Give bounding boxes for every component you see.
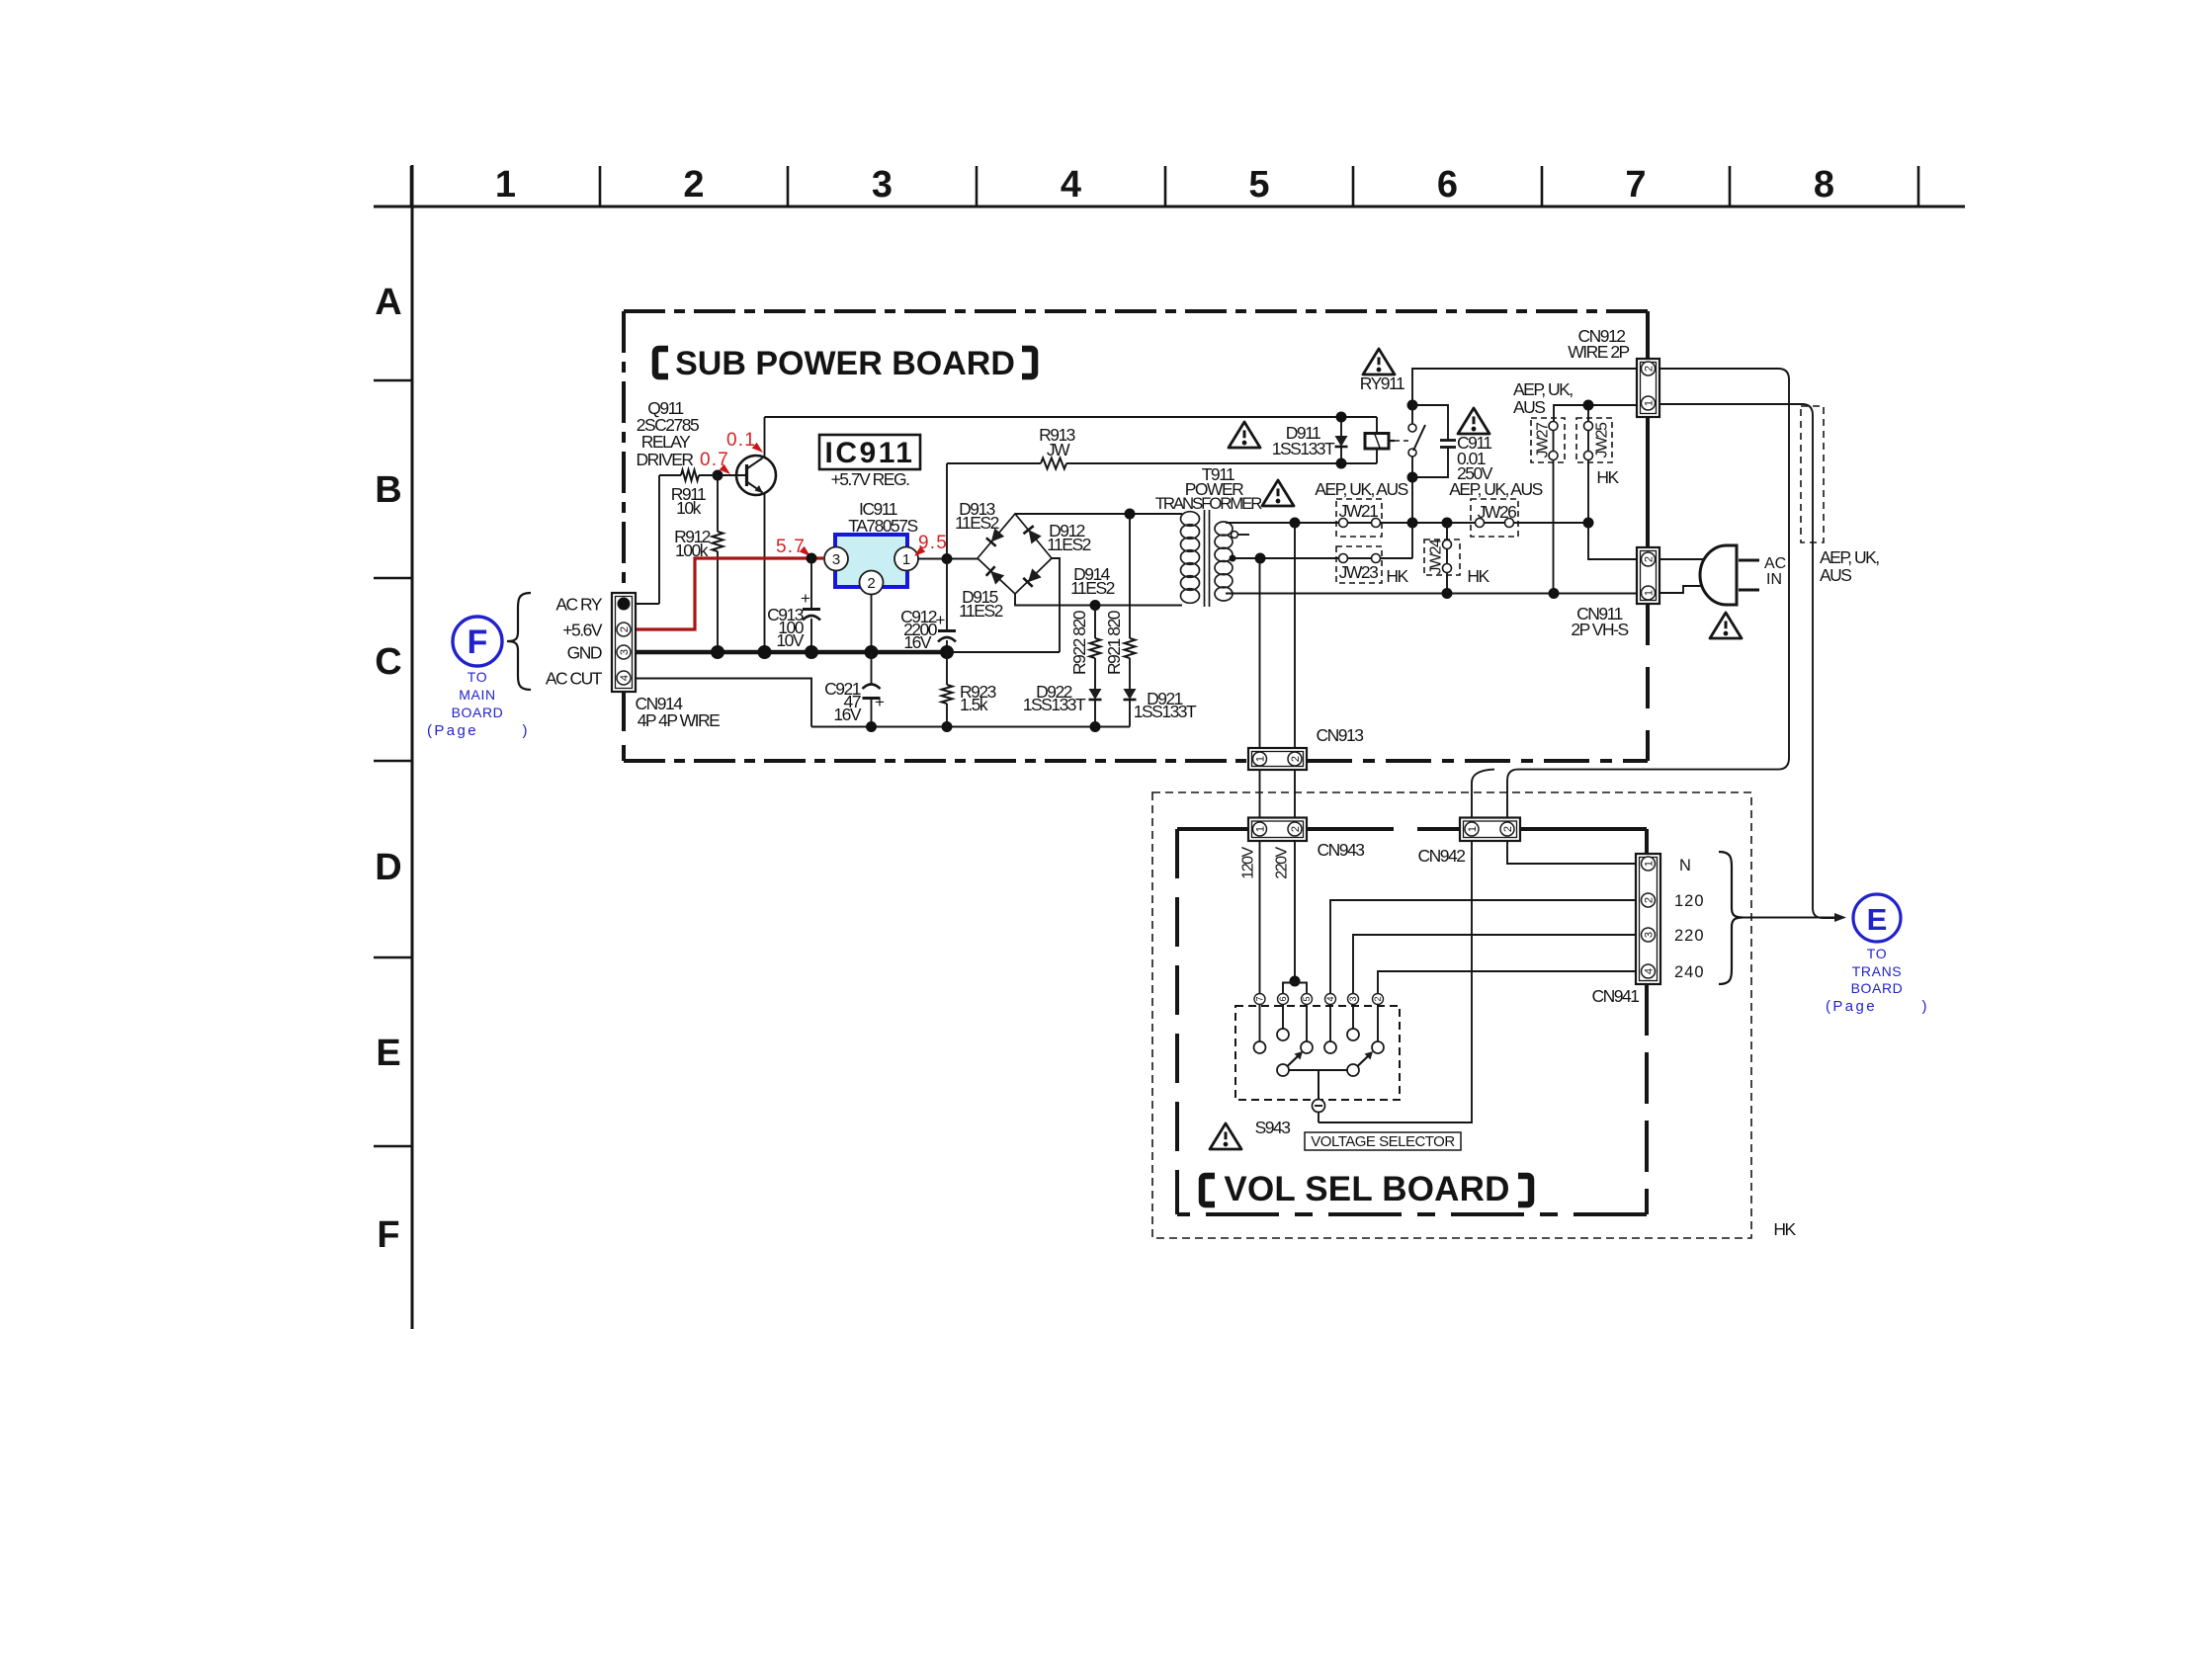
border ruler left line: [411, 165, 414, 1329]
wire: CN942 pin1 down to selector common: [1319, 841, 1472, 1122]
brace for CN941 voltages: [1719, 852, 1743, 984]
wire: R911 left lead down to CN914 pin1 wire: [658, 475, 660, 604]
board border: VOL SEL BOARD right edge upper: [1645, 829, 1649, 854]
wire: secondary tap rail y=565: [1233, 557, 1412, 559]
svg-text:TRANS: TRANS: [1852, 963, 1902, 979]
transformer T911 core: [1204, 510, 1206, 607]
pin 1 CN912: [1642, 396, 1656, 410]
svg-text:CN913: CN913: [1317, 725, 1364, 745]
svg-text:JW25: JW25: [1594, 422, 1611, 458]
svg-text:6: 6: [1278, 996, 1288, 1001]
wire: GND bus thin continuation: [947, 651, 1060, 653]
pin 2 IC911: [860, 571, 884, 595]
svg-text:11ES2: 11ES2: [959, 601, 1003, 621]
svg-text:): ): [1922, 998, 1927, 1015]
connector CN912: [1637, 359, 1659, 417]
svg-text:AEP, UK,: AEP, UK,: [1820, 547, 1879, 567]
node: dot CN913 pin1 takeoff: [1255, 553, 1266, 564]
wire: C911 bottom branch: [1412, 448, 1448, 477]
diode D921: [1124, 689, 1137, 700]
node: dot JW27 bottom: [1549, 588, 1560, 599]
wire: brace to E flag: [1743, 917, 1835, 919]
node: dot C921 bottom: [866, 721, 877, 732]
node: GND bus junction dot: [711, 645, 724, 659]
wire: CN941 pin4 to S943 pin2: [1378, 971, 1636, 994]
wire: S943 pin2 stub: [1377, 1005, 1379, 1042]
relay switch contacts: [1408, 424, 1416, 432]
svg-text:+5.6V: +5.6V: [562, 621, 603, 640]
svg-text:2: 2: [619, 626, 631, 632]
relay dashed actuator link: [1389, 440, 1395, 442]
wire: CN912 pin1 long run to E flag: [1659, 404, 1835, 918]
wire: CN941 pin2 to S943 pin4: [1330, 900, 1636, 994]
node: dot JW24 bottom: [1442, 588, 1453, 599]
svg-text:F: F: [377, 1214, 399, 1256]
contact S943 pin7: [1254, 1041, 1266, 1053]
capacitor C921: [863, 685, 881, 690]
svg-text:GND: GND: [567, 643, 602, 663]
wire: C912 top lead: [946, 559, 948, 631]
wiper right S943: [1347, 1064, 1359, 1076]
node: dot JW25 bottom: [1583, 518, 1594, 529]
board border: VOL SEL BOARD bottom edge dashed: [1177, 1212, 1647, 1216]
wire: CN913 pin1 to CN943 pin1: [1259, 770, 1261, 818]
svg-text:HK: HK: [1386, 566, 1408, 586]
wire: S943 pin3 stub: [1352, 1005, 1354, 1030]
diode bridge outline: [978, 514, 1052, 594]
connector CN943: [1248, 818, 1307, 842]
svg-text:1: 1: [1254, 756, 1266, 762]
svg-text:1: 1: [1254, 826, 1266, 832]
board title SUB POWER BOARD: [655, 349, 668, 376]
node: dot JW25 top: [1583, 400, 1594, 411]
node: dot D911 bottom: [1336, 458, 1347, 469]
svg-text:2: 2: [1643, 366, 1655, 372]
capacitor C911: [1440, 439, 1456, 442]
border ruler left tick: [374, 379, 412, 382]
resistor R911: [659, 474, 681, 476]
node: dot switch/C911 bottom: [1407, 472, 1418, 483]
relay switch blade: [1413, 425, 1425, 451]
svg-text:(Page: (Page: [1826, 998, 1877, 1015]
svg-text:7: 7: [1625, 164, 1646, 206]
wire: branch to pins 6 and 5: [1283, 983, 1307, 994]
border ruler top tick: [787, 166, 790, 207]
wire: CN911 pin1 to AC plug: [1659, 586, 1711, 593]
wire: secondary top rail y=529: [1226, 522, 1588, 524]
node: GND bus junction dot: [805, 645, 818, 659]
wire: Q911 base wire: [718, 474, 747, 476]
wire: CN943 pin2 down to junction: [1294, 841, 1296, 981]
IC U911 regulator body: [835, 535, 907, 587]
label R921 820 (rotated): [1104, 610, 1124, 675]
svg-text:HK: HK: [1467, 566, 1489, 586]
svg-text:BOARD: BOARD: [452, 705, 504, 720]
capacitor C912: [938, 629, 956, 632]
svg-text:120: 120: [1674, 892, 1705, 910]
board border: SUB POWER BOARD left edge lower: [622, 692, 626, 761]
diode D914: [1028, 568, 1042, 582]
svg-text:VOLTAGE SELECTOR: VOLTAGE SELECTOR: [1311, 1133, 1455, 1150]
wire: CN913 pin1 vertical from tap: [1259, 558, 1261, 748]
board border: SUB POWER BOARD right edge mid: [1646, 417, 1650, 547]
svg-text:7: 7: [1255, 996, 1265, 1001]
wire: C921 top lead: [871, 652, 873, 685]
svg-text:2: 2: [1373, 996, 1383, 1001]
svg-text:): ): [523, 722, 528, 739]
border ruler top tick: [1729, 166, 1732, 207]
svg-text:N: N: [1679, 857, 1691, 874]
wire: S943 pin5 stub: [1306, 1005, 1308, 1042]
svg-text:MAIN: MAIN: [459, 687, 495, 703]
svg-text:AUS: AUS: [1513, 397, 1545, 417]
jumper JW26: [1471, 499, 1518, 537]
jumper JW27: [1531, 418, 1565, 462]
svg-text:220V: 220V: [1274, 846, 1291, 878]
wire: wiper common bar: [1289, 1069, 1347, 1071]
svg-text:2: 2: [1502, 826, 1514, 832]
border ruler left tick: [374, 760, 412, 763]
contact S943 pin2: [1372, 1041, 1384, 1053]
svg-text:1.5k: 1.5k: [960, 695, 988, 714]
svg-text:S943: S943: [1255, 1118, 1291, 1137]
pin 2 S943 bubble: [1373, 994, 1384, 1005]
pin 3 S943 bubble: [1348, 994, 1359, 1005]
wire: GND bus thick: [636, 650, 947, 654]
border ruler left tick: [374, 577, 412, 580]
svg-text:1: 1: [1467, 826, 1479, 832]
wire: common drop: [1318, 1070, 1319, 1100]
node E flag circle: [1853, 894, 1901, 942]
node: junction dot at IC911 pin3 input: [807, 553, 817, 564]
board border: VOL SEL module outer dashed box: [1152, 792, 1751, 1238]
svg-text:RELAY: RELAY: [641, 432, 691, 452]
svg-text:3: 3: [872, 164, 893, 206]
svg-text:11ES2: 11ES2: [955, 513, 999, 533]
diode D912: [1029, 530, 1042, 543]
board title VOL SEL BOARD: [1202, 1176, 1215, 1205]
node: GND bus junction dot: [758, 645, 772, 659]
pin 6 S943 bubble: [1278, 994, 1289, 1005]
pin 4 CN941: [1642, 964, 1656, 978]
connector CN942: [1460, 818, 1520, 842]
wire: Q911 collector vertical: [764, 417, 766, 458]
svg-text:10k: 10k: [676, 498, 701, 518]
svg-text:3: 3: [619, 649, 631, 655]
wire: secondary bottom rail y=600.5: [1226, 593, 1637, 595]
diode D915: [990, 571, 1004, 585]
pin 2 CN943: [1288, 822, 1302, 836]
pin 1 CN943: [1253, 822, 1267, 836]
pin 2 CN913: [1288, 752, 1302, 766]
svg-text:JW27: JW27: [1535, 422, 1552, 458]
node: dot R923 bottom: [942, 721, 953, 732]
jumper JW23: [1336, 546, 1382, 583]
svg-text:B: B: [375, 469, 401, 511]
pin 1 CN914 (filled): [618, 598, 631, 611]
svg-text:1: 1: [495, 164, 516, 206]
contact S943 pin4: [1324, 1041, 1336, 1053]
node: base junction dot: [713, 470, 723, 481]
resistor R922: [1094, 606, 1096, 639]
svg-text:JW21: JW21: [1339, 501, 1379, 521]
border ruler top tick: [1352, 166, 1355, 207]
brace for CN914 signals: [507, 593, 531, 690]
wire: C913 top lead: [810, 558, 812, 610]
wire: C911 top branch: [1412, 405, 1448, 440]
svg-text:1SS133T: 1SS133T: [1272, 439, 1335, 458]
svg-text:3: 3: [1348, 996, 1358, 1001]
pin 1 CN913: [1253, 752, 1267, 766]
svg-text:AEP, UK,: AEP, UK,: [1513, 379, 1573, 399]
svg-text:C: C: [375, 641, 401, 683]
label 120V rotated: [1240, 846, 1257, 878]
border ruler top tick: [599, 166, 602, 207]
svg-text:+5.7V REG.: +5.7V REG.: [831, 469, 910, 489]
pin 2 CN912: [1642, 362, 1656, 375]
border ruler left tick: [374, 1145, 412, 1148]
transformer tap 2 lead: [1230, 555, 1236, 562]
pin 3 IC911: [824, 547, 848, 571]
wire: S943 pin7 stub: [1259, 1005, 1261, 1042]
svg-text:240: 240: [1674, 963, 1705, 981]
contact S943 pin3: [1347, 1029, 1359, 1040]
board border: SUB POWER BOARD top edge: [624, 309, 1648, 313]
node: junction dot above S943: [1290, 976, 1301, 987]
svg-text:220: 220: [1674, 927, 1705, 945]
wire: IC911 pin2 down to GND bus: [871, 595, 873, 653]
wire: common to CN942 pin1 net: [1318, 1113, 1319, 1123]
svg-text:HK: HK: [1596, 467, 1619, 487]
wire: CN912 pin2 wire to switch: [1412, 369, 1637, 405]
resistor R913: [1041, 458, 1066, 469]
border ruler top tick: [1541, 166, 1544, 207]
wire: switch bottom to y565 rail: [1411, 457, 1413, 558]
svg-text:8: 8: [1814, 164, 1834, 206]
svg-text:1: 1: [1643, 861, 1655, 867]
svg-text:5.7: 5.7: [776, 537, 806, 557]
svg-text:JW26: JW26: [1478, 502, 1517, 522]
pin 1 CN942: [1465, 822, 1479, 836]
svg-text:1SS133T: 1SS133T: [1134, 702, 1197, 721]
svg-text:E: E: [1867, 902, 1888, 937]
svg-text:CN943: CN943: [1318, 840, 1365, 860]
transformer T911 secondary winding: [1215, 522, 1233, 536]
warning triangle above RY911: [1363, 349, 1395, 374]
wire: CN941 pin3 to S943 pin3: [1353, 935, 1636, 994]
connector CN941: [1636, 854, 1660, 984]
svg-text:6: 6: [1437, 164, 1458, 206]
svg-text:TO: TO: [468, 669, 487, 685]
pin 4 S943 bubble: [1325, 994, 1336, 1005]
svg-text:1: 1: [1643, 590, 1655, 596]
wire: bridge top to transformer primary: [1015, 513, 1182, 515]
svg-text:1SS133T: 1SS133T: [1023, 695, 1086, 714]
board border: VOL SEL BOARD right edge lower dashed: [1645, 984, 1649, 1214]
node: dot D911 top: [1336, 412, 1347, 423]
border ruler top tick: [410, 166, 413, 207]
svg-text:BOARD: BOARD: [1851, 980, 1904, 996]
board border: VOL SEL BOARD top edge segments: [1177, 827, 1248, 831]
node: dot R922 top: [1090, 600, 1101, 611]
svg-text:4: 4: [1643, 968, 1655, 974]
svg-text:E: E: [376, 1033, 400, 1074]
AC IN plug: [1700, 545, 1737, 605]
svg-text:R921 820: R921 820: [1104, 610, 1124, 675]
pin 1 CN941: [1642, 857, 1656, 871]
board border: SUB POWER BOARD bottom edge left part: [624, 759, 1248, 763]
wire: CN913 pin2 to CN943 pin2: [1294, 770, 1296, 818]
node: dot JW24 top: [1442, 518, 1453, 529]
wire: C921 bottom lead: [871, 699, 873, 727]
svg-text:3: 3: [832, 551, 840, 568]
relay RY911 coil: [1376, 417, 1378, 434]
wire: CN911 pin2 to AC plug: [1659, 558, 1711, 560]
transformer T911 primary winding: [1181, 512, 1200, 527]
wiper left S943: [1277, 1064, 1289, 1076]
node: GND bus junction dot: [865, 645, 879, 659]
wire: red +5.6V wire from CN914 pin2: [636, 558, 823, 629]
variant dashed box AEP UK AUS: [1801, 406, 1824, 542]
svg-text:JW24: JW24: [1428, 539, 1445, 575]
svg-text:2P VH-S: 2P VH-S: [1571, 620, 1628, 639]
svg-text:F: F: [468, 623, 488, 661]
svg-text:AC RY: AC RY: [555, 595, 602, 615]
pin 4 CN914: [617, 671, 631, 685]
node: dot R921 top: [1125, 509, 1136, 520]
node: dot D922 bottom: [1090, 721, 1101, 732]
pin 2 CN914: [617, 623, 631, 636]
svg-text:4: 4: [1061, 164, 1081, 206]
svg-text:TRANSFORMER: TRANSFORMER: [1155, 494, 1262, 513]
svg-text:16V: 16V: [833, 705, 861, 724]
resistor R912: [717, 475, 719, 532]
pin 2 CN911: [1642, 552, 1656, 566]
border ruler top tick: [976, 166, 978, 207]
wire: CN914 pin1 (AC RY) wire: [636, 603, 659, 605]
wire: switch top contact stub: [1411, 405, 1413, 424]
svg-text:AC CUT: AC CUT: [546, 669, 603, 689]
pin 2 CN942: [1500, 822, 1514, 836]
svg-text:10V: 10V: [776, 630, 804, 650]
wire: AC CUT wire from CN914 pin4: [636, 679, 811, 727]
wire: CN943 pin1 down to S943 pin7: [1259, 841, 1261, 994]
label R922 820 (rotated): [1069, 610, 1089, 675]
svg-text:IN: IN: [1766, 571, 1782, 588]
board border: VOL SEL BOARD left edge dashed: [1175, 829, 1179, 1214]
svg-text:IC911: IC911: [825, 437, 915, 469]
wire: CN912 pin2 long run to CN942 pin2: [1507, 369, 1789, 818]
wire: CN913 pin2 vertical from top rail: [1294, 523, 1296, 748]
svg-text:VOL SEL BOARD: VOL SEL BOARD: [1224, 1170, 1509, 1208]
svg-text:11ES2: 11ES2: [1070, 578, 1115, 598]
wire: bridge bottom jog: [1015, 594, 1182, 606]
svg-text:(Page: (Page: [427, 722, 478, 739]
wire: R923 top lead: [946, 652, 948, 685]
wire: R913 tap vertical x958: [946, 463, 948, 559]
warning triangle near transformer: [1262, 480, 1294, 506]
label box IC911: [819, 435, 920, 469]
wire: C913 bottom lead: [810, 619, 812, 652]
warning triangle near S943: [1210, 1123, 1241, 1149]
contact S943 common: [1313, 1100, 1325, 1113]
capacitor C913: [803, 608, 820, 611]
border ruler top line: [374, 206, 1965, 208]
svg-text:TO: TO: [1867, 946, 1887, 961]
wire: S943 pin6 stub: [1282, 1005, 1284, 1030]
svg-text:WIRE 2P: WIRE 2P: [1568, 342, 1629, 362]
wire: C912 bottom lead: [946, 640, 948, 652]
svg-text:SUB POWER BOARD: SUB POWER BOARD: [675, 345, 1015, 382]
svg-text:0.1: 0.1: [726, 430, 756, 451]
wire: JW25 net down to CN911 pin2: [1588, 523, 1637, 559]
svg-text:1: 1: [1643, 400, 1655, 406]
wire: branch arc into CN942 pin1: [1472, 770, 1494, 818]
svg-text:4: 4: [619, 675, 631, 681]
svg-text:CN942: CN942: [1418, 846, 1466, 866]
border ruler top tick: [1164, 166, 1167, 207]
svg-text:2: 2: [1643, 897, 1655, 903]
wire: R923 bottom lead: [946, 704, 948, 727]
board border: SUB POWER BOARD right edge lower: [1646, 604, 1650, 761]
diode D913: [991, 528, 1004, 541]
svg-text:+: +: [936, 611, 946, 629]
contact S943 pin5: [1301, 1041, 1313, 1053]
wire: R913 rail y=469: [947, 462, 1041, 464]
svg-text:AEP, UK, AUS: AEP, UK, AUS: [1315, 479, 1407, 499]
svg-text:1: 1: [902, 551, 910, 568]
diode D911: [1340, 417, 1342, 436]
wire: bridge right corner return: [1052, 558, 1060, 652]
resistor R923: [942, 685, 953, 704]
label box VOLTAGE SELECTOR: [1305, 1132, 1461, 1150]
border ruler left tick: [374, 956, 412, 959]
contact S943 pin6: [1277, 1029, 1289, 1040]
jumper JW24: [1424, 540, 1460, 575]
svg-text:RY911: RY911: [1360, 374, 1404, 393]
svg-text:11ES2: 11ES2: [1047, 535, 1091, 554]
svg-text:2: 2: [1290, 826, 1302, 832]
svg-text:2: 2: [1290, 756, 1302, 762]
svg-text:3: 3: [1643, 932, 1655, 938]
warning triangle near D911: [1229, 422, 1260, 448]
svg-text:AC: AC: [1764, 555, 1786, 572]
svg-text:2: 2: [867, 575, 875, 592]
board border: SUB POWER BOARD right edge upper: [1646, 311, 1650, 359]
svg-text:R922 820: R922 820: [1069, 610, 1089, 675]
svg-text:CN941: CN941: [1592, 986, 1640, 1006]
warning triangle near C911: [1458, 408, 1489, 434]
wiper arm right: [1358, 1055, 1370, 1066]
warning triangle below AC plug: [1710, 613, 1742, 638]
pin 1 CN911: [1642, 586, 1656, 600]
wire: IC911 pin1 output to bridge: [918, 558, 978, 560]
switch S943 dashed box: [1235, 1006, 1400, 1100]
svg-text:JW23: JW23: [1339, 562, 1379, 582]
board border: SUB POWER BOARD bottom edge right part: [1307, 759, 1648, 763]
wire: CN942 pin2 to CN941 pin1: [1507, 841, 1636, 864]
pin 3 CN914: [617, 645, 631, 659]
svg-text:D: D: [375, 847, 401, 888]
svg-text:5: 5: [1302, 996, 1312, 1001]
svg-text:5: 5: [1248, 164, 1269, 206]
wire: lower return wire y=735.5: [811, 726, 1130, 728]
wire: Q911 emitter vertical down to GND bus: [764, 493, 766, 653]
wiper arm left: [1288, 1055, 1300, 1066]
board border: SUB POWER BOARD left edge upper: [622, 311, 626, 593]
label 220V rotated: [1274, 846, 1291, 878]
node: switch top node dot: [1407, 400, 1418, 411]
